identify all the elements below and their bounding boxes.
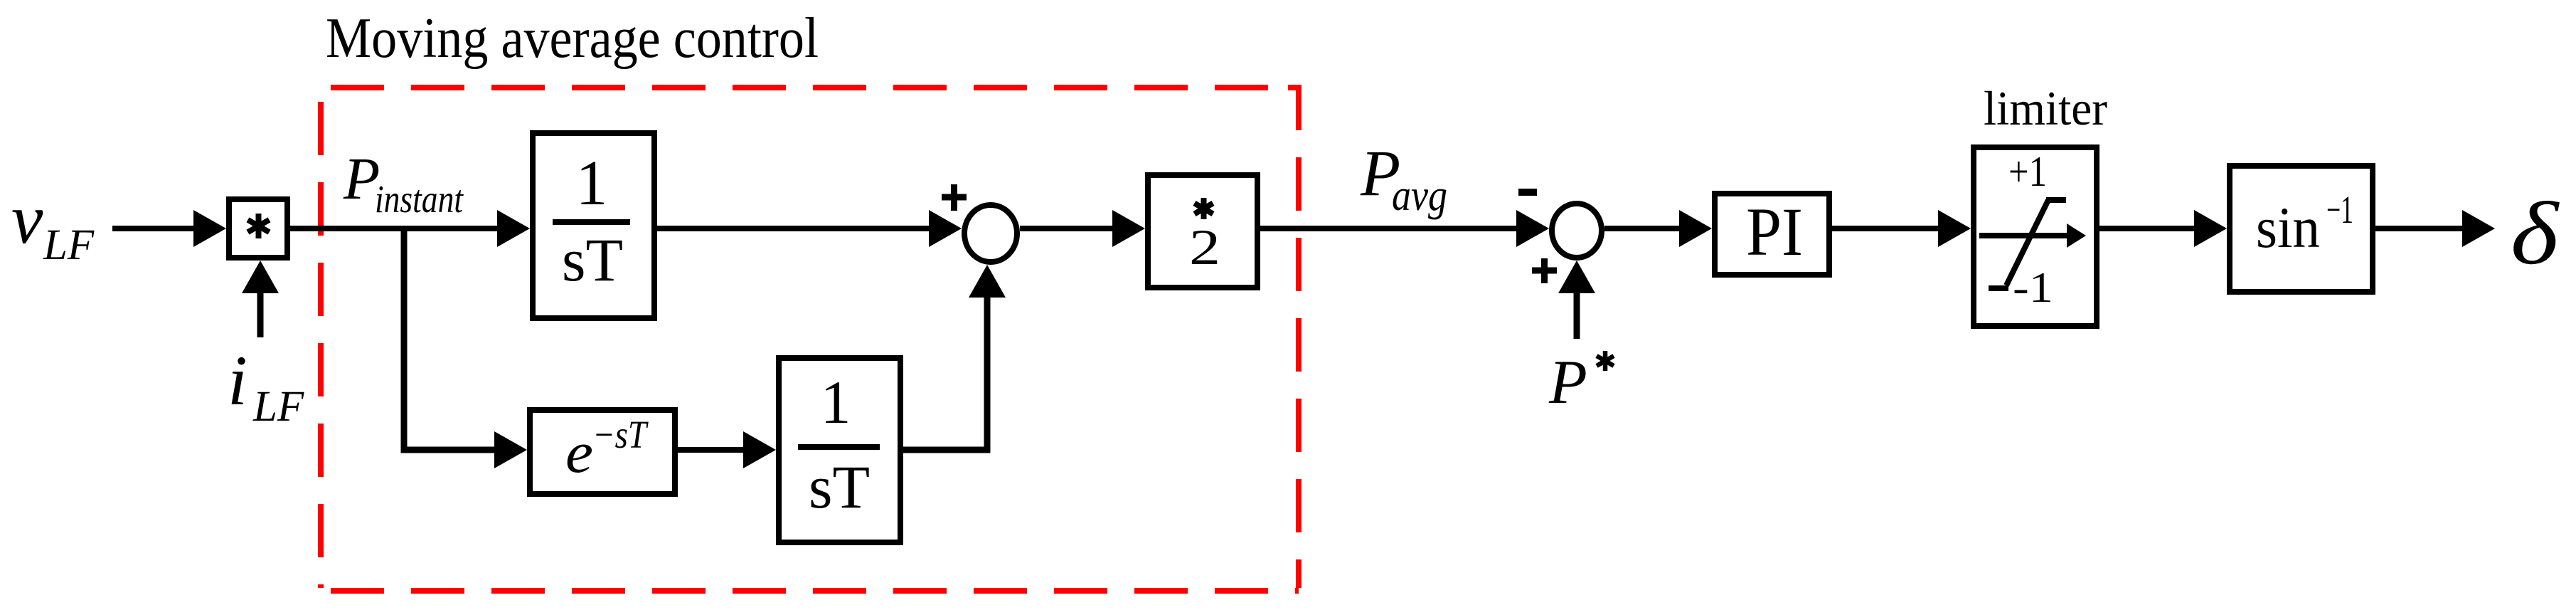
- node P* label: [1548, 348, 1614, 417]
- svg-text:1: 1: [576, 148, 608, 219]
- wire: *2 out to summing circle 2 (P_avg): [1260, 226, 1519, 231]
- svg-text:2: 2: [1189, 220, 1220, 275]
- svg-text:LF: LF: [43, 221, 95, 269]
- svg-text:sT: sT: [562, 226, 623, 294]
- axis arrow: [1979, 233, 2068, 238]
- wire: 1/sT (lower) up into summing circle: [903, 296, 987, 450]
- saturation curve: [1989, 200, 2066, 288]
- wire: multiplier to 1/sT: [290, 226, 500, 231]
- block e^-sT: [530, 410, 675, 494]
- block 1/sT (upper): [533, 133, 654, 318]
- wire: i_LF up-arrow into multiplier: [242, 261, 279, 337]
- right edge: [1288, 88, 1299, 588]
- summing junction circle 2: [1552, 204, 1602, 258]
- wire: limiter to sin^-1: [2099, 226, 2197, 231]
- svg-text:1: 1: [821, 368, 851, 436]
- svg-text:δ: δ: [2511, 184, 2560, 283]
- block sin^-1: [2230, 166, 2373, 292]
- svg-text:avg: avg: [1392, 172, 1447, 220]
- svg-text:v: v: [11, 179, 43, 258]
- svg-text:Moving average control: Moving average control: [326, 7, 819, 70]
- wire: v_LF into multiplier: [112, 226, 196, 231]
- wire: circle 2 to PI: [1604, 226, 1682, 231]
- dashed red boundary box (moving average control): [321, 88, 1299, 591]
- svg-text:−1: −1: [2326, 188, 2353, 231]
- summing junction circle 1: [964, 205, 1017, 262]
- svg-text:−sT: −sT: [592, 413, 649, 456]
- top edge: [331, 85, 1277, 90]
- wire: branch down from P_instant: [404, 228, 497, 450]
- svg-text:P: P: [1548, 348, 1587, 417]
- wire: PI to limiter: [1832, 226, 1941, 231]
- node P_avg label: [1360, 137, 1447, 220]
- multiplier block (*): [229, 199, 287, 258]
- wire: 1/sT out to summing circle: [657, 226, 932, 231]
- svg-text:instant: instant: [375, 177, 464, 221]
- wire: sin^-1 to output delta: [2375, 226, 2465, 231]
- block PI: [1715, 194, 1829, 275]
- bottom edge: [331, 588, 1299, 594]
- block limiter (saturation): [1974, 147, 2097, 326]
- svg-text:e: e: [565, 420, 593, 485]
- minus sign (upper input): [1518, 189, 1537, 196]
- svg-text:LF: LF: [252, 383, 304, 431]
- node P_instant label: [343, 146, 464, 221]
- svg-text:-1: -1: [2013, 264, 2053, 311]
- block *2 (divide by 2): [1148, 175, 1257, 288]
- plus sign (lower input): [1532, 258, 1557, 283]
- node v_LF label: [11, 179, 95, 269]
- svg-text:sT: sT: [809, 453, 870, 521]
- svg-text:+1: +1: [2008, 148, 2047, 195]
- wire: P* up-arrow into circle 2: [1558, 261, 1595, 339]
- wire: circle 1 to *2 block: [1020, 226, 1115, 231]
- svg-text:i: i: [228, 341, 248, 420]
- svg-text:PI: PI: [1746, 194, 1803, 270]
- wire: e^-sT to 1/sT (lower): [678, 447, 746, 453]
- left edge: [318, 102, 324, 588]
- svg-text:sin: sin: [2256, 195, 2320, 260]
- block 1/sT (lower): [779, 358, 900, 542]
- plus sign (upper input): [942, 184, 967, 211]
- svg-text:limiter: limiter: [1984, 81, 2107, 135]
- node i_LF label: [228, 341, 304, 431]
